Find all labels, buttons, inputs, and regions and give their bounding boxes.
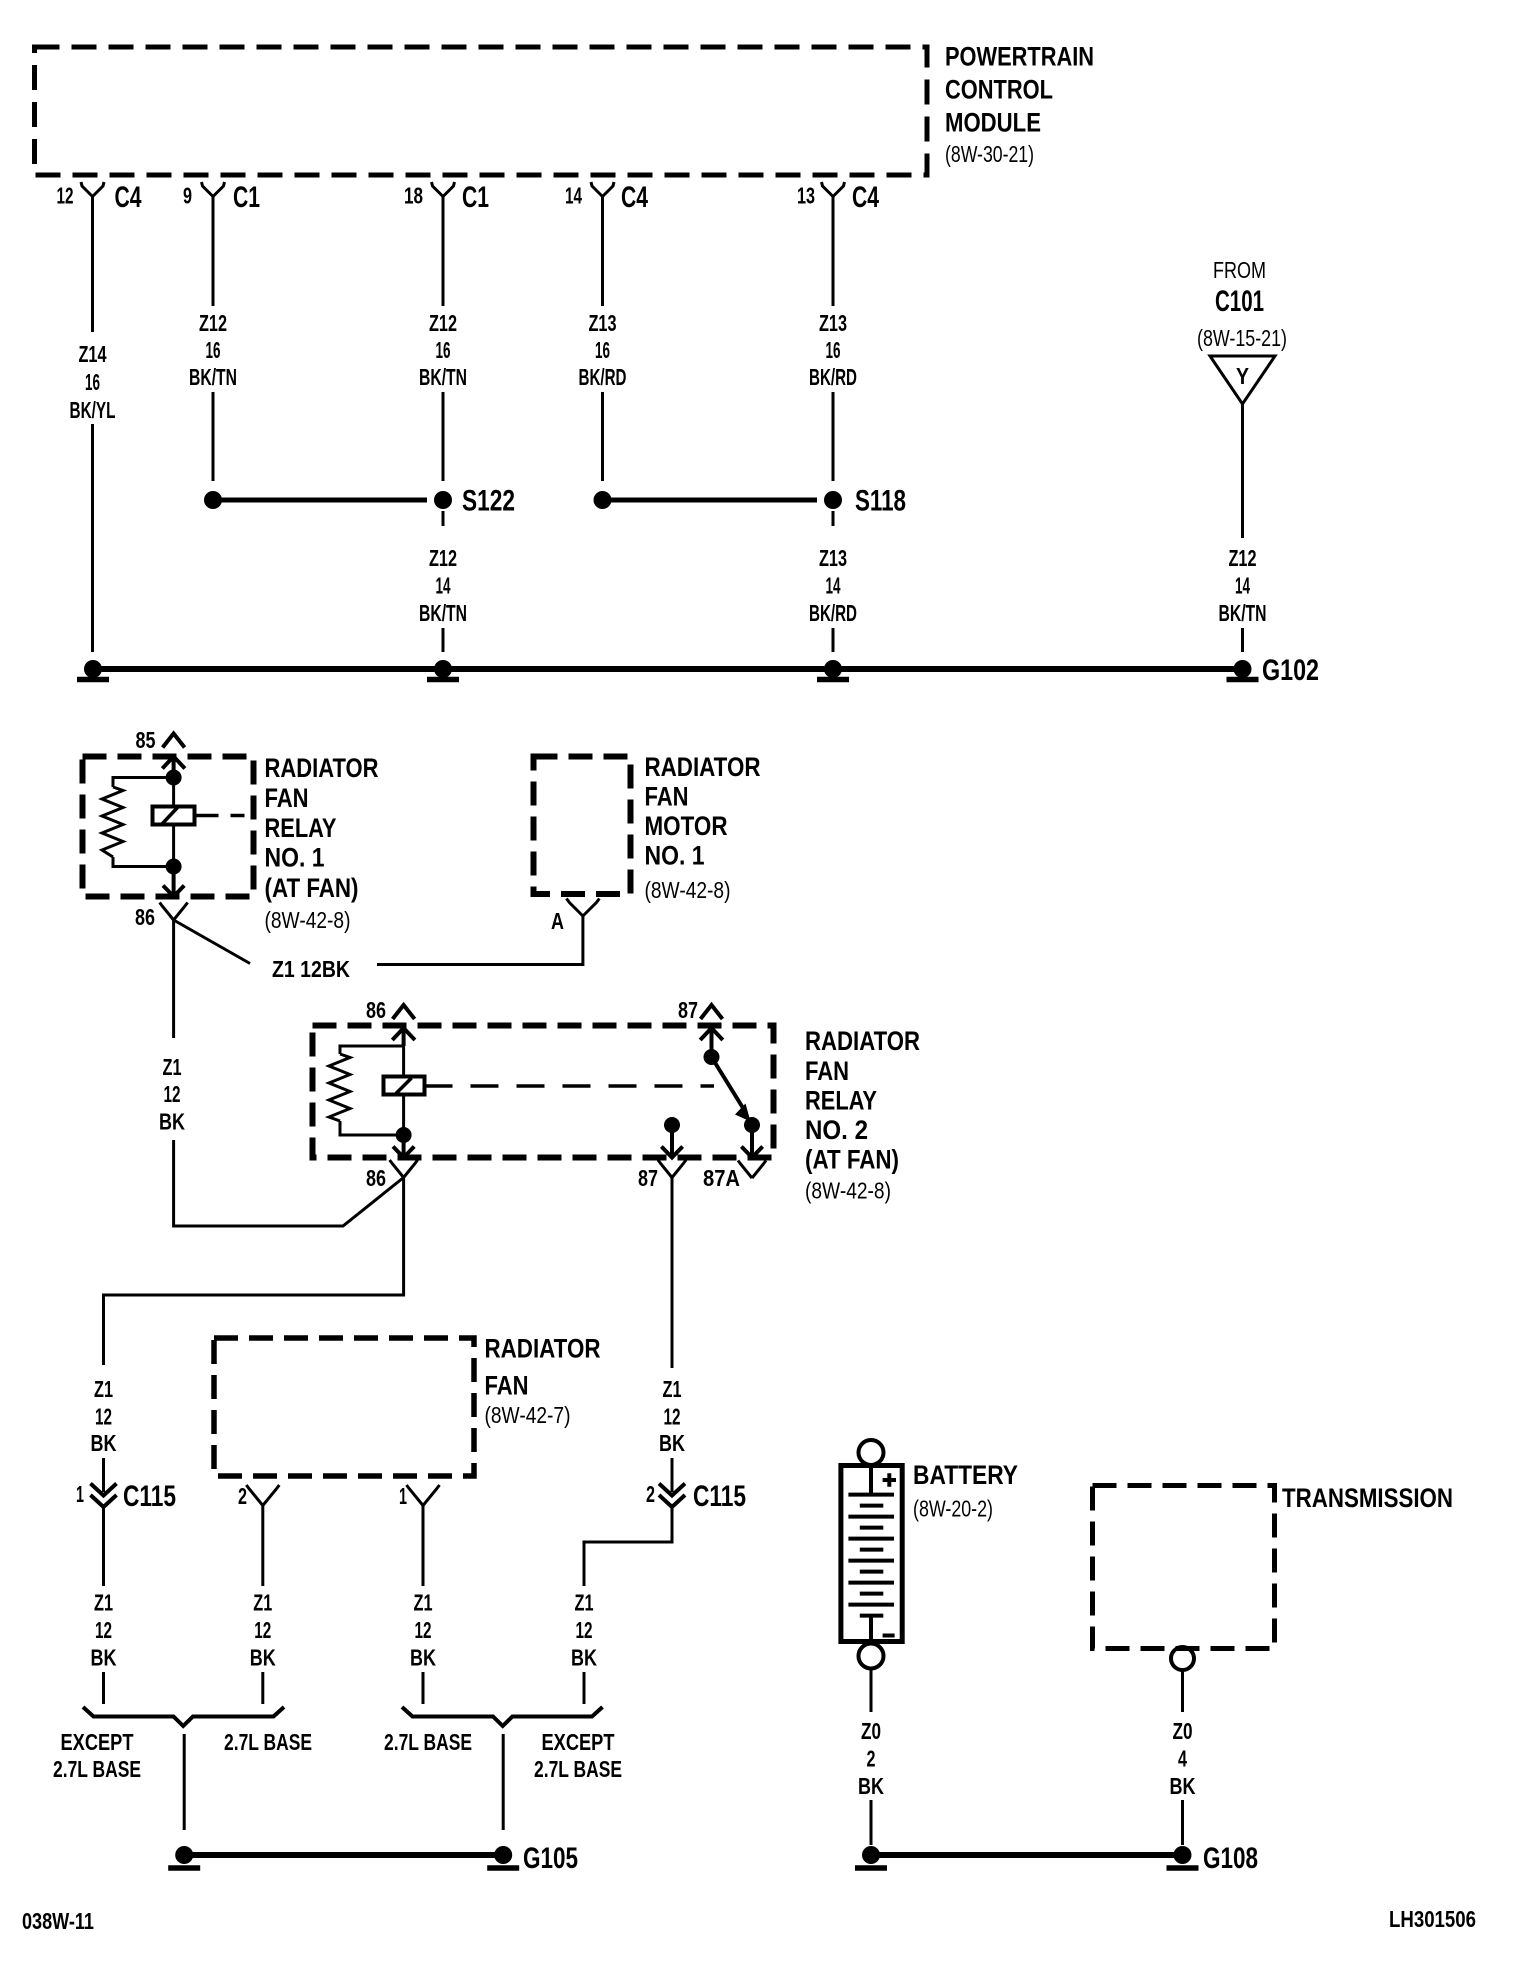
radiator fan pin 1: [399, 1483, 440, 1509]
wire to C115 pin 2: [671, 1458, 674, 1492]
PCM: powertrain control module dashed box: [35, 47, 928, 175]
svg-text:FAN: FAN: [265, 783, 309, 813]
svg-text:Z12: Z12: [429, 545, 457, 571]
ground symbol G108 left: [855, 1846, 887, 1868]
left brace joining columns 1,2: [83, 1707, 284, 1726]
svg-text:Z1 12BK: Z1 12BK: [272, 956, 350, 982]
label Z0 4 BK: [1170, 1718, 1196, 1799]
wire left brace to G105: [183, 1734, 186, 1830]
svg-text:C1: C1: [462, 181, 489, 214]
svg-text:(8W-30-21): (8W-30-21): [945, 141, 1034, 167]
ground bus G108: [871, 1842, 1258, 1875]
right brace joining columns 3,4: [402, 1707, 603, 1726]
ground symbol G105 left: [168, 1846, 200, 1868]
relay K2 pin 87A: [703, 1125, 766, 1191]
wire Z0 4 BK from transmission: [1181, 1670, 1184, 1712]
pin 9 C1 of PCM: [183, 181, 260, 214]
wire Z12 from pin 9 upper segment: [212, 197, 215, 307]
wire Z12 from pin 18 upper segment: [442, 197, 445, 307]
svg-text:2: 2: [238, 1483, 247, 1509]
fan motor pin A: [551, 899, 599, 935]
svg-text:C4: C4: [852, 181, 879, 214]
wire Z1 12 BK from relay K2 pin 87 down: [671, 1178, 674, 1369]
wire from fan pin 2 down: [261, 1506, 264, 1587]
wire Z13 from pin 14 upper segment: [601, 197, 604, 307]
svg-text:BK: BK: [571, 1645, 597, 1671]
svg-text:BK: BK: [1170, 1773, 1196, 1799]
svg-text:S118: S118: [855, 485, 906, 518]
svg-text:(8W-42-7): (8W-42-7): [485, 1402, 571, 1428]
svg-text:2.7L BASE: 2.7L BASE: [53, 1756, 141, 1782]
label 2.7L BASE (col 2): [224, 1729, 312, 1755]
pin 13 C4 of PCM: [797, 181, 879, 214]
svg-text:(8W-42-8): (8W-42-8): [805, 1178, 891, 1204]
wire Z0 4 BK to G108: [1181, 1800, 1184, 1845]
radiator fan title label: [485, 1334, 601, 1429]
svg-text:86: 86: [366, 997, 386, 1023]
wire Z12 14 to G102 right: [1241, 628, 1244, 652]
relay K2 pin 86 top: [366, 997, 415, 1046]
svg-text:G102: G102: [1262, 654, 1319, 687]
svg-text:16: 16: [85, 369, 100, 395]
svg-text:BK/TN: BK/TN: [1219, 600, 1267, 626]
svg-text:(AT FAN): (AT FAN): [805, 1145, 899, 1175]
wire Z13 lower segment to splice S118: [832, 392, 835, 481]
svg-text:A: A: [551, 908, 564, 934]
pin 12 C4 of PCM: [57, 181, 142, 214]
svg-text:Z1: Z1: [663, 1376, 682, 1402]
svg-text:14: 14: [1235, 573, 1250, 599]
wire Z12 lower segment to splice S122: [442, 392, 445, 481]
label Z12 14 BK/TN (C101): [1219, 545, 1267, 626]
relay K2 switch blade: [704, 1049, 761, 1133]
relay K2 pin 87 bottom: [638, 1117, 686, 1191]
svg-text:C1: C1: [233, 181, 260, 214]
svg-text:18: 18: [404, 183, 423, 209]
radiator fan dashed box: [214, 1338, 474, 1476]
ground symbol at G102 right: [1227, 660, 1259, 680]
connector C101 from label: [1197, 257, 1287, 351]
label Z12 16 BK/TN (pin 18): [419, 310, 467, 390]
dashed stub below S122: [442, 511, 445, 526]
svg-text:(8W-42-8): (8W-42-8): [265, 907, 351, 933]
svg-text:14: 14: [826, 573, 841, 599]
svg-text:BK/RD: BK/RD: [579, 364, 627, 390]
svg-text:2: 2: [646, 1481, 655, 1507]
svg-text:Z12: Z12: [199, 310, 227, 336]
svg-text:12: 12: [57, 183, 74, 209]
connector C115 pin 1: [76, 1480, 176, 1513]
svg-text:BK/YL: BK/YL: [70, 397, 116, 423]
svg-text:MOTOR: MOTOR: [645, 811, 728, 841]
ground symbol G105 right: [487, 1846, 519, 1868]
label EXCEPT 2.7L BASE (col 1): [53, 1729, 141, 1782]
svg-text:Z14: Z14: [79, 341, 107, 367]
fan motor M1 title label: [645, 752, 761, 903]
wire column 4 to brace: [583, 1672, 586, 1704]
svg-text:EXCEPT: EXCEPT: [542, 1729, 615, 1755]
svg-text:RADIATOR: RADIATOR: [485, 1334, 601, 1364]
svg-text:12: 12: [415, 1617, 432, 1643]
svg-text:Z1: Z1: [94, 1376, 113, 1402]
svg-text:Z1: Z1: [163, 1054, 182, 1080]
svg-text:Z1: Z1: [94, 1590, 113, 1616]
svg-text:87: 87: [638, 1165, 658, 1191]
transmission dashed box: [1093, 1486, 1275, 1649]
battery: [841, 1440, 902, 1669]
svg-text:BK: BK: [659, 1430, 685, 1456]
svg-text:BK: BK: [250, 1645, 276, 1671]
label Z13 14 BK/RD (below S118): [809, 545, 857, 626]
radiator fan pin 2: [238, 1483, 279, 1509]
svg-text:C4: C4: [621, 181, 648, 214]
svg-text:POWERTRAIN: POWERTRAIN: [945, 42, 1094, 72]
svg-text:12: 12: [164, 1081, 181, 1107]
svg-text:Z13: Z13: [819, 545, 847, 571]
svg-text:FROM: FROM: [1213, 257, 1266, 283]
svg-text:Z13: Z13: [589, 310, 617, 336]
C101 triangle symbol Y: [1210, 356, 1275, 404]
svg-text:16: 16: [826, 337, 841, 363]
svg-text:85: 85: [136, 727, 156, 753]
label Z1 12 BK (column 1): [91, 1590, 117, 1671]
relay K2 coil circuit: [329, 1036, 714, 1143]
relay K2 pin 87 top: [678, 997, 723, 1057]
relay K2 pin 86 bottom: [366, 1135, 418, 1191]
wire right brace to G105: [502, 1734, 505, 1830]
label Z1 12 BK (right column): [659, 1376, 685, 1456]
svg-text:C115: C115: [123, 1480, 176, 1513]
sheet code LH301506: [1389, 1906, 1476, 1932]
wire column 3 to brace: [422, 1672, 425, 1704]
svg-text:1: 1: [399, 1483, 407, 1509]
svg-text:2: 2: [867, 1746, 876, 1772]
svg-text:BK/TN: BK/TN: [189, 364, 237, 390]
pin 18 C1 of PCM: [404, 181, 489, 214]
relay K1 coil circuit: [102, 770, 251, 875]
wire below C115 pin 1: [102, 1507, 105, 1586]
ground symbol at G102 left: [77, 660, 109, 680]
transmission terminal circle: [1171, 1647, 1194, 1670]
ground symbol at G102 x443: [427, 660, 459, 680]
label Z1 12 BK (column 3): [410, 1590, 436, 1671]
svg-text:LH301506: LH301506: [1389, 1906, 1476, 1932]
label Z0 2 BK: [858, 1718, 884, 1799]
splice S122: [204, 485, 515, 518]
svg-text:BK/TN: BK/TN: [419, 364, 467, 390]
svg-text:038W-11: 038W-11: [22, 1908, 94, 1934]
svg-text:Z1: Z1: [253, 1590, 272, 1616]
wire Z13 from pin 13 upper segment: [832, 197, 835, 307]
wire Z12 14 to G102: [442, 628, 445, 652]
svg-text:14: 14: [436, 573, 451, 599]
connector C115 pin 2: [646, 1480, 746, 1513]
svg-text:13: 13: [797, 183, 815, 209]
svg-text:CONTROL: CONTROL: [945, 75, 1053, 105]
label Z1 12 BK (left): [159, 1054, 185, 1135]
wire column 2 to brace: [261, 1672, 264, 1704]
svg-text:2.7L BASE: 2.7L BASE: [224, 1729, 312, 1755]
wire from fan pin 1 down: [422, 1506, 425, 1587]
svg-text:BK/RD: BK/RD: [809, 600, 857, 626]
wire from relay K2 pin 86 down to C115 pin 1: [104, 1178, 404, 1366]
label Z1 12 BK (column 2): [250, 1590, 276, 1671]
svg-text:FAN: FAN: [645, 782, 689, 812]
svg-text:RADIATOR: RADIATOR: [265, 753, 379, 783]
svg-text:TRANSMISSION: TRANSMISSION: [1282, 1483, 1453, 1513]
svg-text:FAN: FAN: [485, 1371, 529, 1401]
svg-text:12: 12: [664, 1404, 681, 1430]
wire to C115 pin 1: [102, 1458, 105, 1492]
svg-text:Y: Y: [1236, 363, 1249, 389]
svg-text:Z0: Z0: [861, 1718, 881, 1744]
label 2.7L BASE (col 3): [384, 1729, 472, 1755]
svg-text:RELAY: RELAY: [805, 1086, 877, 1116]
svg-text:BK: BK: [410, 1645, 436, 1671]
ground bus G105: [184, 1842, 578, 1875]
wire Z0 2 BK to G108: [870, 1800, 873, 1845]
svg-text:BK: BK: [91, 1430, 117, 1456]
svg-text:16: 16: [206, 337, 221, 363]
svg-text:C4: C4: [115, 181, 142, 214]
svg-text:2.7L BASE: 2.7L BASE: [534, 1756, 622, 1782]
svg-text:Z12: Z12: [1229, 545, 1257, 571]
transmission title label: [1282, 1483, 1453, 1513]
label Z12 14 BK/TN (below S122): [419, 545, 467, 626]
svg-text:16: 16: [595, 337, 610, 363]
svg-text:RELAY: RELAY: [265, 813, 337, 843]
svg-text:BK: BK: [159, 1109, 185, 1135]
svg-text:12: 12: [95, 1404, 112, 1430]
svg-text:BK/TN: BK/TN: [419, 600, 467, 626]
svg-text:12: 12: [254, 1617, 271, 1643]
wire Z13 14 to G102: [832, 628, 835, 652]
svg-text:Z13: Z13: [819, 310, 847, 336]
svg-text:EXCEPT: EXCEPT: [61, 1729, 134, 1755]
svg-text:1: 1: [76, 1481, 84, 1507]
svg-text:87A: 87A: [703, 1165, 740, 1191]
wire Z14 from pin 12 upper segment: [91, 197, 94, 333]
svg-text:12: 12: [95, 1617, 112, 1643]
relay K1 title label: [265, 753, 379, 933]
splice S118: [594, 485, 907, 518]
wire Z14 lower segment to G102: [91, 424, 94, 652]
wire Z0 2 BK from battery: [870, 1669, 873, 1713]
svg-text:(AT FAN): (AT FAN): [265, 873, 359, 903]
svg-text:86: 86: [366, 1165, 386, 1191]
svg-text:(8W-15-21): (8W-15-21): [1197, 325, 1287, 351]
label Z12 16 BK/TN (pin 9): [189, 310, 237, 390]
ground symbol G108 right: [1167, 1846, 1199, 1868]
svg-text:Z1: Z1: [414, 1590, 433, 1616]
wire Z13 lower segment to splice S118: [601, 392, 604, 481]
svg-text:BK/RD: BK/RD: [809, 364, 857, 390]
svg-text:NO. 1: NO. 1: [265, 843, 325, 873]
svg-text:C101: C101: [1215, 285, 1264, 318]
svg-text:12: 12: [576, 1617, 593, 1643]
svg-text:2.7L BASE: 2.7L BASE: [384, 1729, 472, 1755]
relay K1 pin 86: [135, 867, 188, 931]
svg-text:NO. 1: NO. 1: [645, 841, 705, 871]
svg-text:BK: BK: [91, 1645, 117, 1671]
svg-text:S122: S122: [462, 485, 515, 518]
svg-text:BATTERY: BATTERY: [913, 1460, 1018, 1490]
svg-text:RADIATOR: RADIATOR: [805, 1026, 920, 1056]
svg-text:RADIATOR: RADIATOR: [645, 752, 761, 782]
svg-text:G105: G105: [523, 1842, 578, 1875]
pin 14 C4 of PCM: [565, 181, 648, 214]
svg-text:C115: C115: [693, 1480, 746, 1513]
svg-text:BK: BK: [858, 1773, 884, 1799]
svg-text:NO. 2: NO. 2: [805, 1115, 868, 1145]
sheet number 038W-11: [22, 1908, 94, 1934]
label Z14 16 BK/YL: [70, 341, 116, 423]
svg-text:9: 9: [183, 183, 192, 209]
wire Z12 lower segment to splice S122: [212, 392, 215, 481]
fan motor M1: radiator fan motor no.1 dashed box: [534, 757, 631, 895]
battery title label: [913, 1460, 1018, 1522]
svg-text:14: 14: [565, 183, 582, 209]
svg-text:FAN: FAN: [805, 1056, 849, 1086]
relay K1: radiator fan relay no.1 dashed box: [83, 757, 254, 897]
label Z1 12 BK (far left): [91, 1376, 117, 1456]
svg-text:Z0: Z0: [1173, 1718, 1193, 1744]
relay K2: radiator fan relay no.2 dashed box: [313, 1026, 774, 1158]
wire from label down then right to relay K2 pin 86: [174, 1140, 404, 1226]
svg-text:Z12: Z12: [429, 310, 457, 336]
label Z1 12BK: [272, 956, 350, 982]
svg-text:G108: G108: [1203, 1842, 1258, 1875]
wire Z1 12BK from relay K1 pin 86 to motor pin A: [174, 916, 583, 965]
wire from C115 pin2 down left to brace column: [584, 1507, 672, 1586]
ground symbol at G102 x833: [817, 660, 849, 680]
wire Z12 from C101 upper segment: [1241, 404, 1244, 538]
svg-text:16: 16: [436, 337, 451, 363]
PCM title label: [945, 42, 1094, 168]
ground bus G102: [93, 654, 1319, 687]
svg-text:86: 86: [135, 904, 155, 930]
svg-text:(8W-42-8): (8W-42-8): [645, 877, 731, 903]
svg-text:(8W-20-2): (8W-20-2): [913, 1496, 993, 1522]
label EXCEPT 2.7L BASE (col 4): [534, 1729, 622, 1782]
svg-text:Z1: Z1: [575, 1590, 594, 1616]
wire column 1 to brace: [102, 1672, 105, 1704]
label Z13 16 BK/RD (pin 14): [579, 310, 627, 390]
svg-text:MODULE: MODULE: [945, 108, 1041, 138]
svg-text:4: 4: [1178, 1746, 1187, 1772]
relay K1 pin 85: [136, 727, 185, 778]
dashed stub below S118: [832, 511, 835, 526]
wire Z1 12 BK from relay K1 pin 86 down: [172, 920, 175, 1038]
relay K2 title label: [805, 1026, 920, 1204]
label Z1 12 BK (column 4): [571, 1590, 597, 1671]
svg-text:87: 87: [678, 997, 698, 1023]
label Z13 16 BK/RD (pin 13): [809, 310, 857, 390]
